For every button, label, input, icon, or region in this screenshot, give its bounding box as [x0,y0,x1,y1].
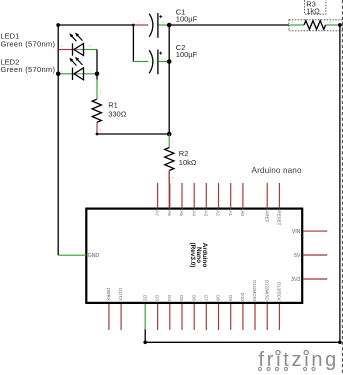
pin D9 [230,304,232,330]
svg-text:D2: D2 [142,295,147,301]
svg-text:D10: D10 [240,293,245,302]
pin VIN [303,230,327,232]
svg-text:Arduino nano: Arduino nano [252,166,302,175]
svg-text:10kΩ: 10kΩ [179,158,197,167]
pin 3V3 [303,278,327,280]
wire left vertical [57,25,59,255]
bend point bottom-right [338,341,342,345]
junction node C1 [167,23,172,28]
resistor R3 [290,0,341,29]
pin A0 [242,183,244,209]
wire LED2 to R1 [96,74,98,80]
svg-text:A2: A2 [216,210,221,216]
svg-text:(Rev3.0): (Rev3.0) [189,243,196,268]
pin D4 [169,304,171,330]
svg-text:100µF: 100µF [176,50,198,59]
svg-text:D8: D8 [216,295,221,301]
svg-text:A5: A5 [179,210,184,216]
bend point R1 bottom [96,133,99,136]
pin D7 [205,304,207,330]
junction node LED2 left [56,72,61,77]
pin 5V [303,254,327,256]
svg-text:GND: GND [88,253,100,259]
svg-text:D3: D3 [155,295,160,301]
pin D8 [218,304,220,330]
svg-text:D12/MISO: D12/MISO [264,280,269,302]
bottom pin labels [106,280,282,302]
svg-text:R1: R1 [108,101,118,110]
bend point top-left [56,23,60,27]
svg-text:Green (570nm): Green (570nm) [1,65,56,74]
svg-text:D1/TX: D1/TX [118,288,123,301]
svg-text:VIN: VIN [292,229,301,235]
capacitor C2 [133,43,197,74]
wire LED1 to LED2 [96,50,98,74]
pin A6 [169,183,171,209]
pin D10 [242,304,244,330]
resistor R2 [165,134,197,183]
pin D1/TX [120,304,122,330]
svg-text:D4: D4 [167,295,172,301]
junction node LED2 right [95,72,100,77]
bend point bottom-left [143,341,147,345]
R3 label box [305,0,326,14]
pin D3 [157,304,159,330]
bend point at C branch [132,24,135,27]
pin D12/MISO [266,304,268,330]
top pin labels [155,210,282,225]
svg-text:AREF: AREF [264,210,269,222]
svg-text:A4: A4 [191,210,196,216]
Arduino nano center label [189,243,208,268]
resistor R1 [92,79,127,134]
wire bottom horizontal [145,341,340,343]
resistor R3 selection box [289,20,342,31]
svg-text:A3: A3 [203,210,208,216]
svg-text:D11/MOSI: D11/MOSI [252,280,257,301]
pin D11/MOSI [254,304,256,330]
svg-text:D9: D9 [228,295,233,301]
svg-text:D0/RX: D0/RX [106,288,111,301]
svg-text:A7: A7 [155,210,160,216]
pin D13/SCK [278,304,280,330]
wire top horizontal [58,24,133,26]
svg-text:R2: R2 [179,149,189,158]
svg-text:A1: A1 [228,210,233,216]
pin A2 [218,183,220,209]
pin A7 [157,183,159,209]
wire right vertical [339,25,341,342]
canvas boundary dashed line [341,0,343,375]
pin GND [58,254,86,256]
svg-text:RESET: RESET [277,210,282,225]
svg-text:D6: D6 [191,295,196,301]
junction node R1/R2 [167,132,172,137]
svg-text:A0: A0 [240,210,245,216]
capacitor C1 [134,7,197,37]
svg-text:D5: D5 [179,295,184,301]
pin RESET [278,183,280,209]
pin AREF [266,183,268,209]
pin A6 lead overlap from R2 [168,171,170,209]
pin D5 [181,304,183,330]
wire branch to C2 [132,25,134,62]
svg-text:5V: 5V [294,253,301,259]
svg-text:D13/SCK: D13/SCK [277,282,282,301]
pin D6 [193,304,195,330]
svg-text:D7: D7 [203,295,208,301]
wire top to R3 [169,24,289,26]
wire D2 drop [144,329,146,342]
pin A5 [181,183,183,209]
Arduino nano IC body [86,209,302,303]
svg-text:1kΩ: 1kΩ [306,6,320,15]
wire middle vertical C1-C2-R junction [168,25,170,134]
svg-text:100µF: 100µF [176,14,198,23]
svg-text:fritzing: fritzing [259,349,340,371]
pin A1 [230,183,232,209]
wire R1 to junction [97,133,169,135]
svg-text:3V3: 3V3 [291,277,300,283]
svg-text:Green (570nm): Green (570nm) [1,39,56,48]
svg-text:330Ω: 330Ω [108,109,127,118]
bend point top-right [338,23,342,27]
LED1 [1,32,98,56]
pin A4 [193,183,195,209]
pin D2 [144,304,146,329]
LED2 [1,57,98,80]
svg-text:A6: A6 [167,210,172,216]
pin A3 [205,183,207,209]
junction node C2 [167,59,172,64]
pin D0/RX [108,304,110,330]
